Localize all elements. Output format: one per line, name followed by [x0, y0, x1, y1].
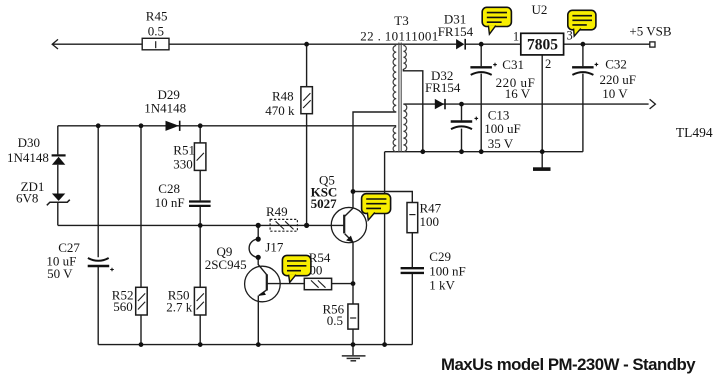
svg-text:R48: R48 [272, 89, 294, 104]
svg-text:10 V: 10 V [602, 86, 628, 101]
wire Q5 collector riser [352, 192, 354, 209]
svg-text:0.5: 0.5 [148, 23, 164, 38]
svg-text:1N4148: 1N4148 [7, 150, 49, 165]
resistor R56 [348, 304, 359, 329]
wire top rail [52, 43, 456, 45]
wire ZD1 D30 column [57, 126, 59, 226]
wire T3 primary bottom to Q5 collector [353, 112, 396, 192]
svg-text:35 V: 35 V [488, 136, 514, 151]
svg-text:1N4148: 1N4148 [144, 101, 186, 116]
wire R48 column upper [306, 44, 308, 86]
wire J17 vertical [257, 225, 259, 239]
wire T3 top-right winding elbow [403, 69, 422, 152]
wire R52 column [140, 126, 142, 345]
svg-text:100 uF: 100 uF [484, 121, 520, 136]
transistor Q5 [331, 207, 366, 242]
capacitor C31 [470, 63, 496, 75]
capacitor C32 [572, 63, 598, 75]
wire R54 to Q5 emitter node [332, 283, 353, 285]
wire U2 pin2 ground [541, 55, 543, 168]
transformer T3 secondary winding bottom [403, 104, 406, 152]
arrow right end of D32 rail [650, 99, 656, 109]
note bubble 3 [362, 194, 391, 221]
svg-text:J17: J17 [265, 239, 284, 254]
wire Q9 emitter column [257, 296, 259, 345]
svg-text:FR154: FR154 [425, 80, 461, 95]
wire C31 column [480, 44, 482, 152]
svg-text:FR154: FR154 [438, 24, 474, 39]
diode D31 [456, 39, 466, 50]
wire C29 to bottom bus [411, 274, 413, 345]
transformer T3 primary winding top [393, 46, 396, 113]
svg-text:100 nF: 100 nF [429, 263, 465, 278]
svg-text:22 . 10111001: 22 . 10111001 [360, 29, 438, 44]
terminal +5VSB [650, 42, 655, 47]
svg-text:TL494: TL494 [676, 125, 713, 140]
svg-text:100: 100 [420, 214, 440, 229]
svg-text:560: 560 [113, 299, 133, 314]
wire D32 rail [403, 103, 648, 105]
svg-text:D30: D30 [18, 135, 40, 150]
svg-text:R51: R51 [173, 143, 195, 158]
arrow left end of top rail [52, 39, 58, 49]
wire C13 column [461, 104, 463, 152]
wire Q5 emitter column [352, 242, 354, 345]
svg-text:R45: R45 [146, 9, 168, 24]
svg-text:220 uF: 220 uF [600, 72, 636, 87]
svg-text:C28: C28 [158, 181, 180, 196]
op-amp U2 regulator box [521, 33, 564, 55]
capacitor C13 [451, 117, 478, 130]
svg-text:0.5: 0.5 [327, 313, 343, 328]
svg-text:MaxUs model PM-230W - Standby: MaxUs model PM-230W - Standby [441, 355, 696, 374]
resistor R47 [407, 203, 418, 233]
transformer T3 core [399, 43, 401, 153]
note bubble 4 [282, 255, 311, 282]
wire left rail D29 [58, 125, 396, 127]
wire return x384 [384, 152, 386, 345]
svg-text:7805: 7805 [527, 37, 558, 54]
svg-text:1: 1 [513, 29, 519, 43]
svg-text:T3: T3 [394, 13, 408, 28]
resistor R45 [142, 38, 169, 50]
svg-text:470 k: 470 k [265, 103, 295, 118]
wire C32 column [582, 44, 584, 152]
wire node y191 to R47 [353, 192, 412, 203]
wire bottom bus [98, 344, 412, 346]
wire ground2 stub [352, 345, 354, 356]
svg-text:10 nF: 10 nF [155, 195, 185, 210]
jumper J17 arc [249, 239, 258, 257]
svg-text:2.7 k: 2.7 k [166, 299, 193, 314]
svg-text:330: 330 [173, 157, 193, 172]
svg-text:1 kV: 1 kV [429, 277, 455, 292]
svg-text:6V8: 6V8 [16, 191, 38, 206]
diode D29 [166, 121, 181, 131]
resistor R48 [301, 87, 313, 114]
ground under U2 [533, 167, 551, 171]
wire Q9 base [258, 257, 267, 275]
svg-text:R49: R49 [266, 204, 288, 219]
transformer T3 secondary winding top [403, 46, 406, 70]
svg-text:5027: 5027 [311, 196, 338, 211]
wire R48 column lower [306, 114, 308, 226]
transistor Q9 [245, 266, 281, 302]
resistor R51 [194, 143, 206, 171]
wire D31 to U2 pin1 [466, 43, 521, 45]
svg-text:2SC945: 2SC945 [205, 257, 247, 272]
diode D32 [435, 99, 446, 109]
ground under R56 [342, 356, 366, 361]
resistor R54 [304, 278, 331, 289]
zener ZD1 [47, 194, 70, 206]
svg-text:C31: C31 [502, 57, 524, 72]
wire U2 pin3 to +5VSB terminal [564, 43, 650, 45]
wire secondary bus y151 [385, 151, 583, 153]
capacitor C28 [189, 202, 211, 206]
wire Q9 collector to R54 [267, 283, 305, 285]
svg-text:16 V: 16 V [505, 86, 531, 101]
capacitor C27 [88, 258, 114, 271]
wire R51 C28 R50 column [199, 126, 201, 345]
transformer T3 primary winding bottom [393, 127, 396, 152]
wire R47 to C29 [411, 233, 413, 268]
wire C27 column [97, 126, 99, 345]
capacitor C29 [401, 268, 424, 273]
resistor R52 [136, 287, 148, 315]
note bubble 1 [482, 7, 511, 34]
svg-text:2: 2 [545, 57, 551, 71]
svg-text:50 V: 50 V [47, 266, 73, 281]
resistor R50 [194, 287, 206, 315]
svg-text:C32: C32 [605, 56, 627, 71]
svg-text:C29: C29 [429, 249, 451, 264]
wire base rail y225 [58, 224, 344, 226]
resistor R49 dashed [270, 219, 297, 231]
svg-text:U2: U2 [532, 2, 548, 17]
svg-text:3: 3 [567, 29, 573, 43]
svg-text:+5 VSB: +5 VSB [629, 24, 671, 39]
diode D30 [52, 154, 66, 165]
note bubble 2 [568, 10, 596, 36]
